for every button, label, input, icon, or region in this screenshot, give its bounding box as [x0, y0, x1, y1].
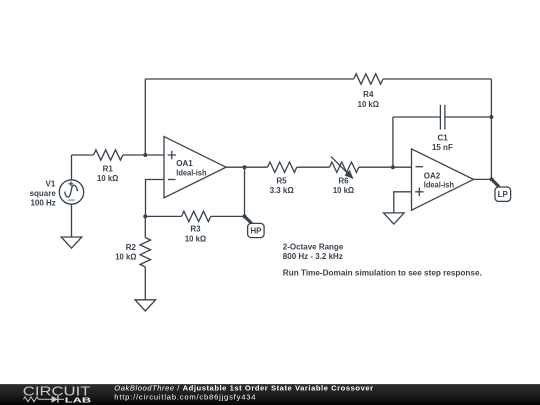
- svg-text:100 Hz: 100 Hz: [30, 199, 55, 208]
- potentiometer R6: [330, 157, 393, 179]
- OA2 label: [424, 171, 454, 189]
- wire node A up to top rail: [144, 79, 146, 155]
- svg-text:R3: R3: [190, 225, 201, 234]
- op-amp OA2: [412, 149, 474, 210]
- R1 value label: [97, 164, 119, 183]
- R5 value label: [270, 176, 295, 195]
- svg-text:3.3 kΩ: 3.3 kΩ: [270, 186, 295, 195]
- footer bar: [0, 383, 540, 405]
- svg-text:800 Hz - 3.2 kHz: 800 Hz - 3.2 kHz: [283, 252, 343, 261]
- wire OA2 output: [474, 178, 492, 180]
- svg-text:LAB: LAB: [65, 396, 91, 405]
- svg-text:OakBloodThree / Adjustable 1st: OakBloodThree / Adjustable 1st Order Sta…: [114, 384, 373, 393]
- wire OA1 output: [226, 166, 245, 168]
- node B: OA1 output: [243, 165, 247, 169]
- node A: R1 / OA1 + / feedback junction: [143, 153, 147, 157]
- wire C1 right lead: [445, 116, 492, 118]
- V1 label: [30, 179, 57, 207]
- svg-text:10 kΩ: 10 kΩ: [185, 234, 207, 243]
- wire V1 top: [71, 155, 73, 180]
- flag HP: [245, 216, 265, 237]
- wire node A to OA1 + input: [145, 154, 164, 156]
- footer title text: [114, 384, 373, 402]
- R6 value label: [333, 176, 355, 195]
- wire node E to OA2 - input: [393, 166, 412, 168]
- svg-text:OA2: OA2: [424, 171, 441, 180]
- logo resistor-diode glyph: [24, 396, 65, 403]
- svg-text:C1: C1: [437, 134, 448, 143]
- wire OA2 + input to ground: [394, 192, 412, 213]
- op-amp OA1: [164, 137, 226, 198]
- R3 value label: [185, 225, 207, 244]
- voltage source V1: [59, 180, 83, 204]
- annotation text: [283, 243, 482, 278]
- svg-text:http://circuitlab.com/cb86jjgs: http://circuitlab.com/cb86jjgsfy434: [114, 393, 256, 402]
- svg-text:Run Time-Domain simulation to: Run Time-Domain simulation to see step r…: [283, 268, 482, 277]
- svg-text:Ideal-ish: Ideal-ish: [176, 168, 206, 177]
- svg-text:2-Octave Range: 2-Octave Range: [283, 243, 344, 252]
- resistor R2: [140, 216, 150, 299]
- wire top rail right: [383, 78, 491, 80]
- node F: C1 / right rail junction: [489, 115, 493, 119]
- svg-text:Ideal-ish: Ideal-ish: [424, 181, 454, 190]
- svg-text:square: square: [30, 189, 57, 198]
- svg-text:V1: V1: [46, 179, 56, 188]
- svg-text:HP: HP: [250, 226, 262, 235]
- svg-text:R1: R1: [103, 164, 114, 173]
- resistor R5: [245, 162, 330, 172]
- capacitor C1: [440, 105, 445, 130]
- wire node E up to C1: [392, 117, 394, 167]
- svg-text:15 nF: 15 nF: [432, 143, 453, 152]
- svg-text:R2: R2: [126, 243, 137, 252]
- svg-text:10 kΩ: 10 kΩ: [97, 174, 119, 183]
- OA1 label: [176, 159, 206, 177]
- ground below V1: [61, 237, 82, 248]
- resistor R4: [354, 74, 383, 84]
- wire C1 left lead: [393, 116, 441, 118]
- svg-text:10 kΩ: 10 kΩ: [115, 252, 137, 261]
- node G: OA2 output / right rail: [490, 177, 494, 181]
- svg-text:R5: R5: [276, 176, 287, 185]
- CircuitLab logo wordmark: [23, 383, 91, 404]
- R4 value label: [358, 90, 380, 109]
- svg-text:R4: R4: [363, 90, 374, 99]
- svg-text:OA1: OA1: [176, 159, 193, 168]
- wire right rail down: [490, 79, 492, 179]
- wire V1 bottom: [71, 204, 73, 237]
- node E: R6 / C1 / OA2 - junction: [391, 165, 395, 169]
- ground at OA2 + input: [384, 213, 405, 224]
- svg-text:10 kΩ: 10 kΩ: [333, 186, 355, 195]
- svg-text:10 kΩ: 10 kΩ: [358, 100, 380, 109]
- resistor R1: [72, 150, 146, 160]
- wire top rail left: [145, 78, 353, 80]
- wire OA1 output down to R3: [244, 167, 246, 216]
- node C: R3 / HP junction: [243, 214, 247, 218]
- svg-text:R6: R6: [338, 176, 349, 185]
- flag LP: [492, 179, 511, 201]
- wire OA1 - input: [146, 180, 165, 217]
- C1 value label: [432, 134, 453, 153]
- resistor R3: [145, 211, 244, 221]
- svg-text:LP: LP: [498, 190, 509, 199]
- R2 value label: [115, 243, 137, 261]
- node D: OA1 - / R3 / R2 junction: [143, 214, 147, 218]
- ground below R2: [135, 300, 156, 311]
